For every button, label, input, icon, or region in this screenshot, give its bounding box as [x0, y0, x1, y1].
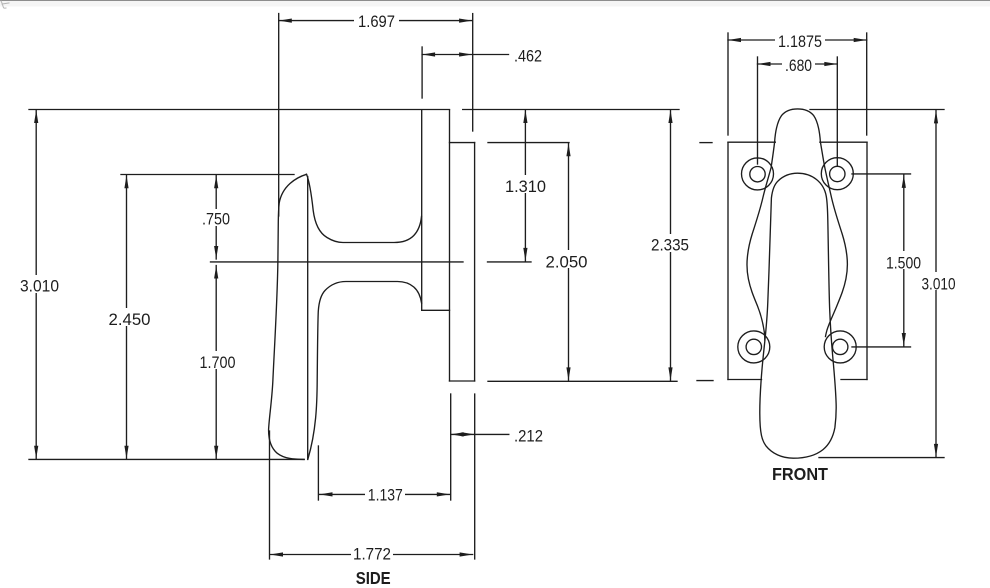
- svg-text:1.700: 1.700: [200, 353, 236, 372]
- ext: 1.772 left vertical at grip back: [269, 431, 271, 559]
- ext: top of side view (3.010 / 1.310 / 2.335): [29, 109, 450, 111]
- FRONT VIEW: plate right edge: [866, 142, 868, 379]
- FRONT VIEW: screw hole bottom-right: [824, 331, 856, 363]
- dim line 1.697: [279, 20, 472, 22]
- SIDE VIEW: neck centerline: [211, 261, 464, 263]
- ext: paddle bottom to right 3.010: [819, 457, 944, 459]
- ext: grip top (2.450 / .750): [121, 174, 294, 176]
- SIDE VIEW: plate right face: [474, 143, 476, 381]
- FRONT VIEW: bell left edge: [747, 142, 775, 340]
- svg-text:1.697: 1.697: [358, 12, 395, 31]
- dim line 1.500: [903, 175, 905, 346]
- dim line 2.450: [126, 175, 128, 459]
- FRONT VIEW: screw hole top-left: [742, 158, 774, 190]
- dim text 3.010 right: [920, 272, 958, 290]
- dim text 1.1875: [775, 30, 825, 48]
- dim text 1.697: [354, 12, 399, 29]
- SIDE VIEW: grip peak and upper neck fillet to hub: [307, 174, 422, 242]
- dim line .680: [758, 63, 838, 65]
- SIDE VIEW: handle hub left edge: [421, 110, 423, 310]
- SIDE VIEW: lower neck fillet and valley line to grip tip: [308, 282, 422, 460]
- ext: .680 verticals into holes: [757, 57, 759, 164]
- ext: centerline to 1.310: [488, 261, 532, 263]
- dim text 1.310: [502, 175, 549, 193]
- ext: 1.137 left vertical at valley: [317, 446, 319, 500]
- ext: .212 / 1.137 right verticals below plate: [450, 394, 452, 500]
- SIDE VIEW: hub right edge / plate left face: [449, 110, 451, 381]
- dim text 2.335: [649, 234, 692, 252]
- dim line 1.310: [524, 110, 526, 261]
- dim line 3.010 right: [935, 110, 937, 457]
- svg-text:1.137: 1.137: [368, 486, 403, 505]
- svg-text:1.1875: 1.1875: [778, 32, 822, 51]
- svg-text:.680: .680: [785, 56, 812, 75]
- dim text 1.772: [351, 545, 393, 562]
- svg-text:1.310: 1.310: [505, 177, 546, 196]
- svg-text:3.010: 3.010: [922, 275, 956, 294]
- SIDE VIEW: grip back (left) edge and bottom tip: [269, 174, 307, 459]
- FRONT VIEW: bell dome apex: [775, 109, 821, 142]
- dim line 2.050: [568, 143, 570, 380]
- ext: plate top to 2.050: [488, 142, 569, 144]
- svg-text:1.772: 1.772: [353, 545, 391, 564]
- FRONT VIEW: screw hole bottom-left: [738, 331, 770, 363]
- ext: 1.697 left at grip back: [278, 14, 280, 216]
- ext: bottom baseline (3.010/2.450/1.700): [29, 458, 304, 460]
- dim line 1.772: [270, 554, 473, 556]
- dim line 1.1875: [728, 39, 867, 41]
- svg-text:2.450: 2.450: [109, 310, 151, 329]
- dim text 3.010 left: [17, 275, 62, 293]
- SIDE VIEW: hub bottom edge: [422, 309, 450, 311]
- ext: hole centers to 1.500: [852, 173, 911, 175]
- SIDE VIEW: grip front (right) edge: [307, 177, 309, 460]
- SIDE VIEW: plate bottom edge: [450, 380, 475, 382]
- svg-text:FRONT: FRONT: [772, 464, 828, 484]
- dim text .462: [511, 45, 545, 64]
- ext: 1.697/.462 right at plate face: [472, 14, 474, 131]
- FRONT VIEW: bell right edge: [820, 142, 847, 337]
- FRONT VIEW: screw hole top-right: [821, 158, 853, 190]
- svg-text:2.050: 2.050: [546, 253, 588, 272]
- dim text 1.137: [365, 485, 405, 502]
- svg-text:.212: .212: [514, 427, 543, 446]
- svg-text:1.500: 1.500: [886, 254, 921, 273]
- FRONT VIEW: lever paddle outline: [760, 173, 836, 458]
- FRONT VIEW: plate top edge segments: [728, 141, 775, 143]
- dim text .750: [199, 209, 233, 226]
- svg-text:.462: .462: [514, 47, 542, 66]
- dim text 2.050: [543, 250, 590, 268]
- dim line .212 with leader: [451, 433, 509, 435]
- ext: .462 left at hub face: [421, 47, 423, 98]
- SIDE VIEW: plate top edge: [450, 142, 475, 144]
- dim text .680: [782, 54, 815, 72]
- ext: plate bottom to 2.050/2.335: [488, 380, 677, 382]
- dim text 1.700: [197, 351, 238, 369]
- dim line .750 / 1.700 shared: [215, 175, 217, 259]
- dim line 2.335: [670, 110, 672, 380]
- dim text 1.500: [883, 251, 924, 269]
- ext: top of front dome to right 3.010: [810, 109, 944, 111]
- svg-text:3.010: 3.010: [20, 277, 59, 296]
- FRONT VIEW: plate bottom edge segments: [728, 379, 762, 381]
- ext: 1.1875 verticals: [727, 33, 729, 135]
- dim line 1.137: [320, 493, 450, 495]
- screenshot top border: [0, 0, 990, 1]
- dim text .212: [511, 425, 546, 443]
- svg-text:SIDE: SIDE: [356, 568, 391, 588]
- dim text 2.450: [105, 308, 152, 326]
- FRONT VIEW: plate left edge: [727, 142, 729, 379]
- dim line 3.010 left: [35, 110, 37, 459]
- dim line .462 with leader: [422, 54, 508, 56]
- svg-text:.750: .750: [202, 210, 230, 229]
- svg-text:2.335: 2.335: [651, 236, 689, 255]
